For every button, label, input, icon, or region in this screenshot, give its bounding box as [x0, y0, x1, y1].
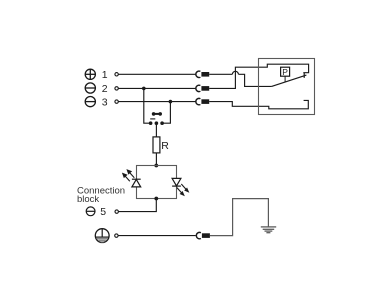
wire bridge to terminal 5: [119, 199, 157, 212]
connector pair row 2: [196, 85, 209, 91]
LED D1 (left, pointing up): [132, 179, 141, 187]
wire 1: [118, 71, 271, 86]
svg-text:2: 2: [102, 83, 108, 95]
svg-text:1: 1: [102, 69, 108, 81]
jumper link bar: [154, 113, 161, 115]
node terminal5 wire start (open dot): [115, 210, 118, 213]
connector pair row 3: [196, 98, 209, 104]
junction dot bridge top: [154, 164, 158, 168]
junction dot wire2/jumper: [142, 87, 146, 91]
jumper block left wire: [144, 88, 151, 123]
svg-text:3: 3: [102, 97, 108, 109]
node wire1 start (open dot): [115, 73, 118, 76]
node earth wire start (open dot): [115, 234, 118, 237]
LED D1 arrows: [123, 170, 135, 181]
terminal 2 (minus): [85, 83, 95, 93]
jumper alt position dash: [150, 118, 155, 120]
svg-text:5: 5: [100, 206, 106, 218]
junction dot wire3/jumper: [169, 100, 173, 104]
connector pair row 1: [196, 71, 209, 77]
LED bridge frame: [137, 166, 177, 199]
earth terminal: [95, 229, 109, 243]
jumper block right wire: [162, 102, 170, 124]
jumper block pins: [149, 112, 164, 125]
terminal 3 (minus): [85, 97, 95, 107]
svg-text:R: R: [161, 140, 169, 152]
wire 3: [118, 100, 308, 108]
node wire3 start (open dot): [115, 100, 118, 103]
wire jumper to resistor: [155, 123, 157, 137]
connector pair earth row: [196, 232, 210, 238]
earth wire to connector: [118, 235, 196, 237]
ground symbol: [261, 227, 276, 233]
terminal 5 (minus): [86, 207, 95, 216]
junction dot bridge bottom: [154, 197, 158, 201]
wire 2: [118, 64, 308, 88]
wire resistor to bridge: [155, 153, 157, 166]
pressure sensor P: [281, 67, 290, 82]
svg-text:P: P: [282, 67, 288, 77]
LED D2 (right, pointing down): [172, 178, 181, 186]
pressure switch enclosure: [259, 59, 315, 115]
pressure switch lever: [272, 73, 307, 87]
node wire2 start (open dot): [115, 87, 118, 90]
terminal 1 (plus): [85, 69, 95, 79]
resistor R: [153, 137, 160, 153]
svg-text:block: block: [77, 194, 99, 205]
LED D2 arrows: [177, 184, 189, 195]
earth wire connector to ground: [210, 199, 269, 236]
